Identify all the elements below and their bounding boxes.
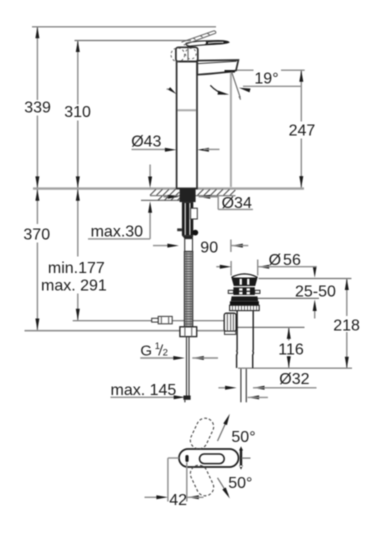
- svg-text:50°: 50°: [231, 429, 255, 446]
- svg-text:2: 2: [163, 347, 168, 358]
- svg-text:370: 370: [23, 227, 50, 244]
- svg-text:Ø32: Ø32: [279, 371, 309, 388]
- svg-text:310: 310: [64, 104, 91, 121]
- svg-text:90: 90: [200, 240, 218, 257]
- svg-text:218: 218: [333, 318, 360, 335]
- svg-text:339: 339: [24, 99, 51, 116]
- svg-text:Ø56: Ø56: [269, 252, 301, 269]
- svg-text:42: 42: [169, 492, 187, 509]
- svg-text:max. 291: max. 291: [41, 277, 107, 294]
- svg-text:G: G: [140, 343, 152, 360]
- svg-text:25-50: 25-50: [295, 284, 336, 301]
- svg-text:247: 247: [289, 122, 316, 139]
- svg-text:max. 145: max. 145: [111, 382, 177, 399]
- svg-text:min.177: min.177: [48, 260, 105, 277]
- svg-text:Ø43: Ø43: [131, 134, 161, 151]
- svg-text:Ø34: Ø34: [222, 195, 252, 212]
- svg-text:19°: 19°: [254, 71, 278, 88]
- svg-text:116: 116: [278, 341, 304, 358]
- svg-text:max.30: max.30: [91, 224, 144, 241]
- svg-text:1: 1: [155, 341, 160, 352]
- svg-text:50°: 50°: [228, 475, 252, 492]
